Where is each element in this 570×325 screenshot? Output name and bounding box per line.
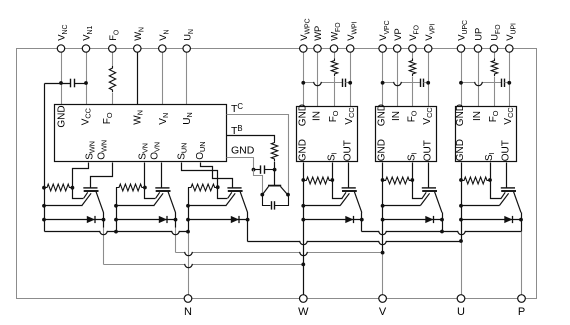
node N bus junction — [186, 230, 190, 234]
wire OUT gate path U — [506, 163, 508, 188]
node D2 cathode — [174, 218, 178, 222]
transistor Q IGBT V high — [422, 187, 436, 189]
svg-text:OUT: OUT — [501, 140, 512, 161]
wire WFO stub bottom — [334, 77, 336, 107]
terminal P — [518, 295, 526, 303]
terminal pin VN — [159, 45, 166, 52]
node resistor U right — [488, 178, 492, 182]
terminal pin VFO — [409, 45, 416, 52]
node VVPI junction — [426, 81, 430, 85]
node emitter V high — [381, 204, 385, 208]
wire emitter drop — [263, 195, 271, 206]
wire WN stub — [137, 49, 139, 105]
wire V phase line lower — [382, 253, 384, 299]
resistor U FO — [491, 59, 497, 77]
transistor temp sensor base — [274, 170, 276, 186]
terminal pin WFO — [330, 45, 337, 52]
node Q1 emitter — [42, 204, 46, 208]
terminal pin VNC — [57, 45, 64, 52]
transistor Q2 IGBT — [155, 187, 169, 189]
wire U phase line upper — [461, 163, 463, 242]
terminal pin VUPI — [506, 45, 513, 52]
terminal pin UP — [474, 45, 481, 52]
terminal pin VWPI — [347, 45, 354, 52]
svg-text:IN: IN — [311, 111, 322, 121]
resistor gate V high — [383, 177, 413, 184]
wire V low collector bus — [176, 252, 383, 254]
svg-text:WP: WP — [312, 26, 323, 41]
wire OUT gate path V — [428, 163, 430, 188]
diode D U high — [462, 219, 522, 221]
svg-text:GND: GND — [231, 145, 255, 157]
wire VVPI stub — [428, 49, 430, 107]
wire W low collector bus — [104, 264, 304, 266]
wire Q2 collector lower — [175, 228, 177, 253]
node VVPC junction — [381, 81, 385, 85]
svg-text:U: U — [457, 306, 465, 318]
node V collector P bus — [440, 230, 444, 234]
terminal N — [184, 295, 192, 303]
wire O_VN gate path — [161, 163, 163, 188]
wire UFO stub bottom — [494, 77, 496, 107]
node emitter W high — [301, 204, 305, 208]
node Q2 emitter — [114, 204, 118, 208]
terminal W — [300, 295, 308, 303]
wire VNC cap row — [45, 83, 71, 85]
wire U low collector bus — [248, 241, 462, 243]
wire V phase line upper — [382, 163, 384, 253]
wire UP stub — [478, 49, 480, 107]
transistor emitter diag — [263, 187, 269, 195]
node VWPI junction — [348, 81, 352, 85]
node VUPI junction — [507, 81, 511, 85]
terminal pin WP — [314, 45, 321, 52]
diode D2 — [117, 219, 176, 221]
resistor gate U high — [461, 177, 490, 184]
wire rail cell2 — [116, 188, 118, 232]
wire O_WN gate path — [91, 163, 113, 188]
svg-text:OUT: OUT — [422, 140, 433, 161]
wire O_UN gate path — [201, 163, 233, 188]
wire VWPC stub — [303, 49, 305, 107]
node resistor V right — [410, 178, 414, 182]
node R2 right — [143, 186, 147, 190]
wire W phase line — [303, 163, 305, 299]
wire S_WN sense path — [73, 163, 89, 199]
node D1 anode — [42, 218, 46, 222]
op-amp HVIC V block — [376, 107, 437, 162]
wire W cap row — [304, 82, 343, 84]
wire W cap lead — [346, 82, 351, 84]
node resistor W left — [301, 178, 305, 182]
wire Q1 collector — [103, 213, 105, 228]
node D cathode V — [440, 218, 444, 222]
node emitter U high — [459, 204, 463, 208]
wire VN stub — [162, 49, 164, 105]
svg-text:GND: GND — [377, 139, 388, 161]
terminal pin FO — [109, 45, 116, 52]
wire S_I path W — [333, 163, 343, 199]
node D2 anode — [114, 218, 118, 222]
node collector — [286, 193, 290, 197]
wire cap lead — [254, 169, 261, 171]
wire Q2 collector — [175, 213, 177, 228]
node D anode U — [459, 218, 463, 222]
svg-text:GND: GND — [57, 105, 68, 127]
node R1 right — [71, 186, 75, 190]
svg-text:OUT: OUT — [342, 140, 353, 161]
svg-text:IN: IN — [472, 111, 483, 121]
terminal pin VP — [394, 45, 401, 52]
node GND cap junction — [252, 168, 256, 172]
terminal pin UFO — [490, 45, 497, 52]
wire Q1 emitter main — [45, 205, 83, 207]
wire FO stub bottom — [112, 93, 114, 105]
wire Q1 collector lower — [103, 228, 105, 265]
wire rail cell3 / N line upper — [188, 188, 190, 232]
node R3 right — [216, 185, 220, 189]
wire VFO stub top — [412, 49, 414, 59]
wire S_VN sense path — [145, 163, 156, 199]
node D3 cathode — [246, 218, 250, 222]
node D anode V — [381, 218, 385, 222]
op-amp LVIC block — [55, 105, 227, 162]
wire VVPC stub — [382, 49, 384, 107]
terminal U — [457, 295, 465, 303]
transistor Q IGBT U high — [501, 187, 515, 189]
svg-text:UP: UP — [473, 28, 484, 41]
wire GND to emitter — [254, 170, 263, 195]
wire Q3 emitter main — [189, 205, 227, 207]
wire N line lower — [188, 232, 190, 299]
wire U cap row — [462, 82, 502, 84]
svg-text:V: V — [379, 306, 387, 318]
transistor Q3 IGBT — [227, 187, 241, 189]
op-amp HVIC U block — [456, 107, 517, 162]
wire U cap lead — [505, 82, 510, 84]
wire OUT gate path W — [348, 163, 350, 188]
resistor gate W high — [303, 177, 332, 184]
node VN1 cap junction — [84, 81, 88, 85]
terminal pin VN1 — [82, 45, 89, 52]
wire TB line — [227, 136, 275, 141]
diode D1 — [45, 219, 104, 221]
terminal pin VUPC — [457, 45, 464, 52]
capacitor C1 — [70, 79, 72, 88]
node VUPC junction — [459, 81, 463, 85]
wire UFO stub top — [494, 49, 496, 59]
node D1 cathode — [102, 218, 106, 222]
transistor collector diag — [281, 187, 288, 195]
transistor temp sensor bar — [268, 185, 281, 187]
node D cathode U — [519, 218, 523, 222]
svg-text:N: N — [184, 306, 192, 318]
svg-text:GND: GND — [297, 104, 308, 126]
capacitor U bootstrap — [501, 79, 503, 87]
wire WFO stub top — [334, 49, 336, 59]
node U bus junction — [459, 239, 463, 243]
resistor gate R3 — [188, 184, 218, 191]
node D anode W — [301, 218, 305, 222]
svg-text:GND: GND — [455, 104, 466, 126]
resistor V FO — [409, 59, 415, 77]
wire V cap row — [383, 82, 421, 84]
wire cap to VN1 — [75, 83, 87, 85]
wire module outline — [17, 49, 537, 299]
resistor gate R2 — [116, 184, 145, 191]
svg-text:GND: GND — [377, 104, 388, 126]
wire Q2 emitter main — [117, 205, 155, 207]
node V bus junction — [381, 251, 385, 255]
wire WP stub — [317, 49, 319, 107]
wire VUPC stub — [461, 49, 463, 107]
svg-text:GND: GND — [297, 139, 308, 161]
wire TB resistor lead — [274, 162, 276, 170]
wire VNC stub — [61, 49, 63, 105]
wire GND line — [227, 158, 254, 170]
node emitter — [260, 193, 264, 197]
wire emitter main V high — [383, 205, 421, 207]
node D cathode W — [360, 218, 364, 222]
terminal V — [379, 295, 387, 303]
wire collector W high — [361, 213, 363, 232]
wire collector V high — [442, 213, 444, 232]
svg-text:W: W — [298, 306, 309, 318]
op-amp HVIC W block — [297, 107, 358, 162]
svg-text:IN: IN — [391, 111, 402, 121]
wire S_UN sense path — [182, 163, 228, 199]
wire TC line — [227, 115, 289, 195]
transistor Q1 IGBT — [83, 187, 97, 189]
resistor thermistor R — [271, 141, 277, 162]
node VWPC junction — [301, 81, 305, 85]
wire VP stub — [397, 49, 399, 107]
terminal pin UN — [183, 45, 190, 52]
wire cap lead2 — [265, 169, 275, 171]
capacitor C2 — [260, 165, 262, 173]
wire N emitter bus — [45, 231, 189, 233]
wire S_I path V — [413, 163, 423, 199]
wire Q3 collector — [247, 213, 249, 242]
wire emitter main W high — [304, 205, 341, 207]
capacitor V bootstrap — [420, 79, 422, 87]
terminal pin VVPI — [425, 45, 432, 52]
wire VWPI stub — [350, 49, 352, 107]
wire collector drop — [275, 195, 289, 206]
capacitor W bootstrap — [342, 79, 344, 87]
node TB junction — [273, 168, 277, 172]
node resistor U left — [459, 178, 463, 182]
wire U phase line lower — [461, 242, 463, 299]
terminal pin WN — [134, 45, 141, 52]
diode D V high — [383, 219, 443, 221]
resistor W FO — [331, 59, 337, 77]
wire P bus — [362, 231, 522, 233]
wire N rail — [44, 84, 46, 232]
transistor Q IGBT W high — [342, 187, 356, 189]
svg-text:VP: VP — [392, 28, 403, 41]
node Q3 emitter — [186, 204, 190, 208]
wire UN stub — [186, 49, 188, 105]
capacitor C3 — [271, 201, 273, 209]
wire FO stub top — [112, 49, 114, 67]
diode D W high — [304, 219, 362, 221]
wire VUPI stub — [509, 49, 511, 107]
wire emitter main U high — [462, 205, 500, 207]
svg-text:P: P — [518, 306, 525, 318]
svg-text:GND: GND — [455, 139, 466, 161]
wire S_I path U — [491, 163, 502, 199]
terminal pin VVPC — [379, 45, 386, 52]
node D3 anode — [186, 218, 190, 222]
node resistor W right — [330, 178, 334, 182]
resistor gate R1 — [44, 184, 72, 191]
wire VN1 stub — [86, 49, 88, 105]
wire P drop — [521, 232, 523, 299]
wire VFO stub bottom — [412, 77, 414, 107]
node resistor V left — [381, 178, 385, 182]
node VNC cap junction — [59, 81, 63, 85]
resistor on FO line — [109, 66, 115, 92]
node rail R1 — [42, 186, 46, 190]
wire collector U high — [521, 213, 523, 232]
diode D3 — [189, 219, 248, 221]
node W bus junction — [301, 263, 305, 267]
node rail2 bus junction — [114, 230, 118, 234]
wire V cap lead — [424, 82, 429, 84]
terminal pin VWPC — [300, 45, 307, 52]
